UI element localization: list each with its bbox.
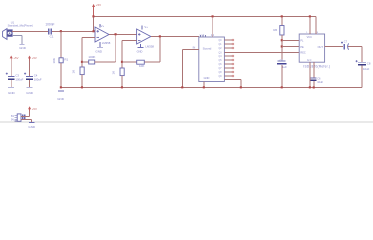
node opamp input junction: [93, 30, 95, 32]
svg-text:IN: IN: [193, 46, 196, 50]
IC U4 ISD1820 box: [299, 34, 324, 62]
svg-text:GND: GND: [28, 125, 36, 129]
svg-text:100K: 100K: [88, 55, 95, 59]
svg-text:100uF: 100uF: [15, 77, 23, 81]
IC U3 sound processor box: [199, 37, 225, 82]
wire +5V feed vertical into + input: [93, 17, 95, 32]
wire IC bottom gnd pin: [203, 82, 205, 88]
svg-text:C7: C7: [344, 39, 348, 43]
node junctions to ISD pins: [281, 39, 283, 41]
svg-text:R1: R1: [64, 58, 68, 62]
svg-text:10uF: 10uF: [363, 67, 370, 71]
svg-text:G C: G C: [307, 59, 312, 62]
IC pin labels right column: [219, 40, 223, 78]
capacitor C4 (decoupling left 2): [24, 56, 42, 96]
wire feedback to output: [95, 34, 116, 62]
svg-text:C6: C6: [317, 76, 321, 80]
capacitor C3 (decoupling left): [6, 8, 24, 95]
node feedback junction: [81, 61, 83, 63]
node output junction: [115, 33, 117, 35]
svg-text:1K: 1K: [112, 71, 116, 75]
svg-text:1uF: 1uF: [282, 65, 287, 69]
svg-text:GND: GND: [57, 97, 64, 101]
capacitor plates right of battery: [22, 115, 24, 119]
wire U2B output to IC: [151, 36, 199, 38]
svg-text:PE: PE: [300, 46, 304, 49]
op-amp U2A: [95, 24, 109, 47]
node rail left junction: [60, 86, 62, 88]
wire top +5V rail: [94, 16, 316, 18]
svg-text:R6: R6: [273, 28, 277, 32]
capacitor C7 (output coupling): [341, 42, 349, 50]
wire bias divider vertical: [60, 31, 62, 58]
power +5V flag: [92, 4, 95, 17]
svg-text:100uF: 100uF: [34, 77, 42, 81]
sheet border line: [0, 121, 373, 123]
svg-text:REC: REC: [300, 52, 305, 55]
svg-text:GND: GND: [26, 91, 34, 95]
node U2B output junction: [159, 35, 161, 37]
svg-text:LM358: LM358: [102, 41, 111, 45]
svg-text:GND: GND: [137, 49, 143, 53]
wire to feedback resistor R5: [122, 61, 137, 63]
capacitor C1: [49, 28, 52, 34]
wire mic output: [12, 30, 48, 32]
IC right output pins Q0-Q9: [224, 40, 299, 88]
resistor R2 (to ground): [80, 67, 84, 75]
node top rail junction: [92, 15, 94, 17]
svg-text:GND: GND: [95, 50, 103, 54]
svg-text:Standard_Mic(Phone): Standard_Mic(Phone): [8, 23, 33, 27]
svg-text:C8: C8: [367, 61, 371, 65]
svg-text:GND: GND: [8, 91, 16, 95]
svg-text:+5V: +5V: [96, 3, 101, 7]
ground (mic): [20, 43, 25, 45]
wire to feedback resistor: [82, 61, 89, 63]
wire to ground: [21, 120, 32, 123]
svg-text:C1: C1: [50, 35, 54, 39]
svg-text:LM358: LM358: [145, 45, 154, 49]
svg-text:OUT: OUT: [318, 46, 324, 49]
ground (rail left): [58, 90, 64, 92]
svg-text:VCC: VCC: [307, 36, 312, 39]
ground (op-amp U2B V-): [138, 46, 144, 48]
svg-text:9V: 9V: [11, 118, 14, 121]
op-amp U2B: [137, 26, 151, 48]
svg-text:ISD1820(Refer.): ISD1820(Refer.): [303, 64, 330, 68]
svg-text:V+: V+: [101, 24, 105, 28]
wire U2A output to U2B: [109, 33, 137, 35]
svg-text:+5V: +5V: [13, 56, 18, 60]
node junction at R bias: [60, 30, 62, 32]
node U2B feedback junction: [121, 61, 123, 63]
resistor R1 (bias to ground): [59, 58, 63, 63]
wire U2A inverting input: [82, 37, 95, 67]
microphone LS1: [3, 29, 13, 40]
svg-text:GND: GND: [204, 76, 210, 80]
svg-text:1 2 3: 1 2 3: [199, 34, 205, 36]
svg-text:10K: 10K: [52, 58, 56, 63]
svg-text:GND: GND: [19, 46, 27, 50]
wire IC left input pin: [182, 50, 198, 88]
capacitor C8 (far right to ground): [358, 61, 366, 63]
wire C1 to opamp input: [52, 30, 95, 32]
svg-text:V+: V+: [144, 25, 148, 29]
wire to +5V flag: [21, 111, 30, 117]
capacitor C6 on ISD bottom pin: [313, 62, 315, 77]
svg-text:+5V: +5V: [32, 107, 37, 111]
resistor R3 (feedback): [89, 60, 95, 64]
wire ISD output: [325, 46, 344, 48]
svg-text:10K: 10K: [139, 64, 144, 68]
wire mic second terminal: [12, 35, 22, 44]
wire ISD top pins to rail: [310, 17, 316, 35]
resistor R4 (to ground): [120, 68, 124, 76]
svg-text:+5V: +5V: [32, 56, 37, 60]
resistor R5 (feedback): [137, 60, 145, 64]
resistor R6 from +5V rail: [281, 17, 283, 26]
svg-text:1K: 1K: [72, 70, 76, 74]
wire IC VCC to rail: [212, 17, 214, 38]
wire ISD bottom pin left to rail: [309, 62, 311, 87]
wire U2B inverting input: [122, 41, 137, 68]
svg-text:100nF: 100nF: [45, 22, 54, 26]
ground (op-amp U2A V-): [97, 46, 103, 48]
battery J1 (bottom-left power input): [11, 106, 37, 129]
svg-text:Sound: Sound: [203, 46, 212, 50]
wire feedback to U2B output: [145, 37, 161, 63]
svg-text:10uF: 10uF: [317, 80, 323, 84]
wire ground rail: [61, 87, 362, 89]
pin-end marks: [232, 39, 234, 77]
